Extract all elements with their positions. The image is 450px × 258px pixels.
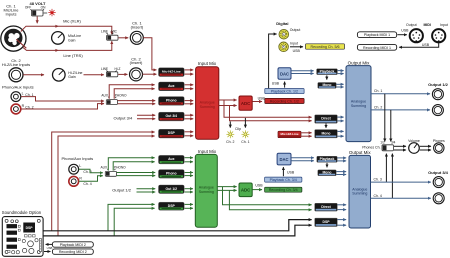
summing amp U4 Analogue Summing (green) <box>195 154 217 227</box>
wire switch to insert jack 1 <box>118 37 128 39</box>
wire RCA R to aux/phono switch (green) <box>79 176 103 182</box>
jack Ch.1 insert J3 <box>130 21 144 45</box>
svg-text:Phono: Phono <box>166 171 177 175</box>
svg-text:Aux: Aux <box>168 157 175 161</box>
svg-text:Output 1/2: Output 1/2 <box>112 188 131 193</box>
svg-text:USB: USB <box>401 29 409 33</box>
strip Aux (red) <box>159 82 185 91</box>
strip Mic-HiZ-Line (red input mix) <box>159 68 185 77</box>
soundmodule board <box>2 217 43 257</box>
wire jack2 to gain knob <box>23 74 44 76</box>
svg-text:USB: USB <box>258 96 266 100</box>
svg-text:Output Mix: Output Mix <box>348 60 371 65</box>
svg-text:Phono/Aux Inputs: Phono/Aux Inputs <box>2 84 34 89</box>
svg-text:Ch. 1: Ch. 1 <box>374 89 382 93</box>
RCA jack L Ch.1 <box>11 91 34 101</box>
svg-text:Direct: Direct <box>321 205 331 209</box>
box Playback Ch. 1/2 <box>265 89 304 94</box>
wire switch to insert jack 2 <box>118 73 127 75</box>
svg-text:Direct: Direct <box>321 117 331 121</box>
48V LED D1 <box>44 9 56 16</box>
wire ADC to USB recording <box>252 101 262 103</box>
wire summing to ADC ch2 <box>219 105 237 107</box>
ADC U5 (green) <box>239 183 252 197</box>
switch LINE/MIC SW2 <box>101 30 118 41</box>
svg-text:Digital: Digital <box>276 21 288 26</box>
summing amp U7 Analogue Summing (blue mix1) <box>346 66 371 142</box>
svg-text:Ch. 3: Ch. 3 <box>374 178 382 182</box>
wire summing to ADC ch4 <box>217 189 236 191</box>
strip Out 1/2 (green) <box>159 185 185 194</box>
box Playback (mix1) <box>317 69 338 75</box>
wire phono out to Phono strip (green) <box>117 172 156 174</box>
jack output 2 <box>432 105 443 116</box>
wire line (TRS) path <box>23 41 112 50</box>
svg-text:(Insert): (Insert) <box>130 60 143 65</box>
box Recording Ch. 5/6 <box>306 44 345 49</box>
MIDI DIN output connector <box>410 29 423 42</box>
RCA jack L Ch.3 <box>69 164 92 174</box>
svg-text:Ch. 4: Ch. 4 <box>374 194 382 198</box>
svg-text:Clip: Clip <box>235 127 241 131</box>
wire switch to volume <box>394 145 406 147</box>
clip indicator arrows <box>229 122 231 128</box>
wire DAC2 to Playback box2 <box>291 157 314 159</box>
svg-text:Phono: Phono <box>166 98 177 102</box>
wire aux branch to Aux strip <box>109 85 154 99</box>
svg-text:Output 3/4: Output 3/4 <box>428 170 449 175</box>
box Recording MIDI 2 <box>52 249 93 254</box>
wire direct monitor ch3 <box>223 187 312 205</box>
wire phones tap ch3 <box>385 154 387 183</box>
svg-text:Gain: Gain <box>68 38 75 42</box>
svg-text:3/4: 3/4 <box>391 140 396 144</box>
svg-text:Out 1/2: Out 1/2 <box>166 187 178 191</box>
RCA jack R Ch.4 <box>69 176 92 186</box>
svg-text:Gain: Gain <box>68 75 75 79</box>
box DSP (mix2) <box>315 218 338 226</box>
svg-text:Output Mix: Output Mix <box>349 150 372 155</box>
svg-text:Aux: Aux <box>168 84 175 88</box>
svg-text:DSP: DSP <box>168 204 176 208</box>
switch AUX/PHONO SW4 <box>101 93 127 104</box>
wire playback2 to mono3 <box>326 163 328 167</box>
svg-text:DAC: DAC <box>280 72 289 77</box>
svg-text:Recording Ch. 3/4: Recording Ch. 3/4 <box>269 188 298 192</box>
svg-text:Playback Ch. 1/2: Playback Ch. 1/2 <box>271 90 298 94</box>
svg-text:Mic-HiZ-Line: Mic-HiZ-Line <box>162 70 181 74</box>
svg-text:Mono: Mono <box>321 131 330 135</box>
XLR combo connector J1 <box>1 26 27 51</box>
label Ch.2 Hi-Z/Line Inputs <box>2 58 30 67</box>
svg-text:USB: USB <box>255 183 263 187</box>
wire RCA L to aux/phono switch (green) <box>79 169 103 173</box>
svg-text:Hi-Z: Hi-Z <box>114 67 120 71</box>
label Ch.1 Mic/Line Inputs <box>4 4 20 17</box>
wire phono out to Phono strip <box>118 100 156 102</box>
RCA jack R Ch.2 <box>11 104 34 114</box>
jack output 4 <box>433 193 444 204</box>
strip Phono (green) <box>159 170 185 179</box>
knob Volume <box>408 139 420 153</box>
svg-text:Mono: Mono <box>322 83 331 87</box>
wire RCA R to aux/phono switch <box>21 104 104 109</box>
strip DSP (green) <box>159 202 185 210</box>
wire volume to phones jack <box>420 145 431 147</box>
wire direct monitor ch1 <box>224 100 312 117</box>
box Playback MIDI 1 <box>357 32 396 38</box>
svg-text:Input: Input <box>440 23 448 27</box>
switch phones 1/2 - 3/4 SW6 <box>380 140 395 151</box>
svg-text:Playback MIDI 1: Playback MIDI 1 <box>364 33 390 37</box>
svg-text:Ch. 1: Ch. 1 <box>241 140 249 144</box>
knob Mic/Line Gain <box>52 32 81 45</box>
svg-text:USB: USB <box>293 49 301 53</box>
wire board to recording midi2 <box>44 251 50 253</box>
wire direct monitor ch2 <box>230 106 312 121</box>
box Direct (mix1) <box>315 115 338 123</box>
wire insert2 to Mic-HiZ-Line strip <box>143 73 157 75</box>
svg-text:Hi-Z/Line Inputs: Hi-Z/Line Inputs <box>2 62 30 67</box>
svg-text:USB: USB <box>287 171 295 175</box>
svg-text:L: L <box>22 91 24 95</box>
svg-text:Summing: Summing <box>200 105 215 109</box>
wire playback to DAC2 <box>282 167 284 176</box>
wire DSP feed from soundmodule (green risers) <box>108 204 155 230</box>
summing amp U8 Analogue Summing (blue mix2) <box>349 155 371 228</box>
svg-text:PHONO: PHONO <box>114 165 126 169</box>
svg-text:MIC: MIC <box>111 30 118 34</box>
wire knob to switch <box>84 74 104 76</box>
strip Out 3/4 (red) <box>159 112 185 121</box>
svg-text:Line (TRS): Line (TRS) <box>63 53 83 58</box>
svg-text:R: R <box>22 104 25 108</box>
jack phones <box>433 139 445 153</box>
svg-text:L: L <box>79 164 81 168</box>
svg-text:Input: Input <box>290 41 298 45</box>
MIDI DIN input connector <box>432 29 445 42</box>
wire summing to ADC ch3 <box>217 186 236 188</box>
svg-text:MIDI: MIDI <box>424 23 431 27</box>
wire phones tap ch4 <box>391 154 393 199</box>
wire RCA L to aux/phono switch <box>21 97 104 101</box>
svg-text:(Insert): (Insert) <box>131 24 144 29</box>
svg-text:DSP: DSP <box>168 131 176 135</box>
svg-text:Mic (XLR): Mic (XLR) <box>63 19 81 24</box>
wire 48V feed to mic line <box>36 16 38 23</box>
svg-text:Recording Ch. 5/6: Recording Ch. 5/6 <box>311 45 340 49</box>
wire insert1 to Mic-HiZ-Line strip <box>143 38 156 70</box>
svg-text:PHONO: PHONO <box>115 93 127 97</box>
wire DSP audio bus lower <box>43 225 311 236</box>
svg-text:Playback: Playback <box>320 157 335 161</box>
wire ADC to USB recording (green) <box>252 189 262 191</box>
svg-text:Playback: Playback <box>320 69 335 73</box>
svg-text:Summing: Summing <box>199 190 214 194</box>
svg-text:Input Mix: Input Mix <box>198 149 217 154</box>
wire playback midi2 to board <box>46 243 52 245</box>
svg-text:Ch. 2: Ch. 2 <box>374 105 382 109</box>
jack output 1 <box>432 89 443 100</box>
wire direct monitor ch4 <box>229 190 311 209</box>
svg-text:Summing: Summing <box>352 192 367 196</box>
svg-text:Recording MIDI 1: Recording MIDI 1 <box>363 46 391 50</box>
svg-text:Output: Output <box>290 28 301 32</box>
wire mic (XLR) path <box>21 26 112 34</box>
svg-text:Summing: Summing <box>351 104 366 108</box>
box Recording Ch. 1/2 <box>265 98 304 103</box>
svg-text:Ch. 4: Ch. 4 <box>83 182 91 186</box>
svg-text:DAC: DAC <box>279 157 288 162</box>
svg-text:Playback Ch. 3/4: Playback Ch. 3/4 <box>270 178 297 182</box>
svg-text:Output: Output <box>406 23 417 27</box>
svg-text:USB: USB <box>272 82 280 86</box>
svg-text:DSP: DSP <box>26 226 34 230</box>
ADC U2 (red) <box>239 96 252 110</box>
svg-text:1/2: 1/2 <box>380 140 385 144</box>
box Mono (mix1) <box>318 83 336 89</box>
svg-text:Recording Ch. 1/2: Recording Ch. 1/2 <box>270 99 299 103</box>
LED clip Ch.1 <box>241 130 249 143</box>
svg-text:Output 3/4: Output 3/4 <box>114 115 133 120</box>
box Direct (mix2) <box>315 203 338 211</box>
chip DSP <box>23 223 35 233</box>
box Mono (mix2) <box>318 170 336 176</box>
wire direct to mono2 <box>325 123 327 128</box>
svg-text:ADC: ADC <box>241 188 251 193</box>
wire phones tap ch2 <box>390 110 392 142</box>
svg-text:Mic-HiZ-Line: Mic-HiZ-Line <box>281 132 299 136</box>
svg-text:Mono: Mono <box>322 171 331 175</box>
wire playback1/2 to digital out <box>269 34 277 88</box>
wire phones tap ch1 <box>384 94 386 142</box>
strip Aux (green) <box>159 155 185 164</box>
svg-text:USB: USB <box>422 43 430 47</box>
knob Hi-Z/Line Gain <box>53 69 83 82</box>
svg-text:Recording MIDI 2: Recording MIDI 2 <box>59 250 87 254</box>
wire DSP feed from soundmodule (red risers) <box>52 132 155 231</box>
svg-text:Inputs: Inputs <box>6 12 17 17</box>
DAC U6 (blue) <box>277 153 291 165</box>
svg-text:USB: USB <box>47 246 53 250</box>
svg-text:Output 1/2: Output 1/2 <box>428 82 449 87</box>
jack Ch.2 insert J4 <box>130 56 144 81</box>
box Playback Ch. 3/4 <box>265 177 302 182</box>
svg-text:R: R <box>79 176 82 180</box>
box Recording MIDI 1 <box>357 44 396 50</box>
strip DSP (red) <box>159 129 185 138</box>
wire playback to mono1 <box>326 75 328 79</box>
DAC U3 (blue) <box>278 68 291 80</box>
jack output 3 <box>433 177 444 188</box>
svg-text:ADC: ADC <box>241 101 251 106</box>
RCA digital output (yellow) <box>279 28 300 39</box>
svg-text:AUX: AUX <box>101 165 108 169</box>
svg-text:Soundmodule Option: Soundmodule Option <box>2 210 42 215</box>
LED clip Ch.2 <box>226 130 234 143</box>
svg-text:AUX: AUX <box>101 93 108 97</box>
svg-text:ON: ON <box>41 6 46 10</box>
RCA digital input (yellow) <box>279 41 298 51</box>
switch AUX/PHONO SW5 (green) <box>101 165 127 176</box>
box Playback (mix2) <box>317 156 337 162</box>
wire digital in to USB <box>290 46 303 48</box>
wire aux branch to Aux strip (green) <box>108 158 154 171</box>
svg-text:Input Mix: Input Mix <box>198 61 217 66</box>
svg-text:Out 3/4: Out 3/4 <box>166 114 178 118</box>
wire summing to ADC ch1 <box>219 99 237 101</box>
box Mic-HiZ-Line direct (red) <box>278 131 301 138</box>
jack Ch.2 TRS input J2 <box>9 68 23 82</box>
svg-text:Ch. 2: Ch. 2 <box>226 140 234 144</box>
48V phantom switch SW1 <box>25 1 46 16</box>
summing amp U1 Analogue Summing (red) <box>196 67 219 139</box>
svg-text:DSP: DSP <box>323 220 331 224</box>
strip Phono (red) <box>159 97 185 106</box>
svg-text:Phones Ch.: Phones Ch. <box>362 145 380 149</box>
box Playback MIDI 2 <box>52 242 93 247</box>
box Mono (mix1 direct) <box>315 130 338 138</box>
svg-text:Playback MIDI 2: Playback MIDI 2 <box>60 243 86 247</box>
box Recording Ch. 3/4 <box>265 187 302 192</box>
wire playback to DAC <box>284 82 286 88</box>
wire DSP audio bus upper <box>43 220 311 231</box>
svg-text:Phono/Aux Inputs: Phono/Aux Inputs <box>62 156 94 161</box>
switch LINE/Hi-Z SW3 <box>101 67 121 77</box>
svg-text:OFF: OFF <box>25 6 31 10</box>
wire DAC to Playback box <box>291 70 313 72</box>
